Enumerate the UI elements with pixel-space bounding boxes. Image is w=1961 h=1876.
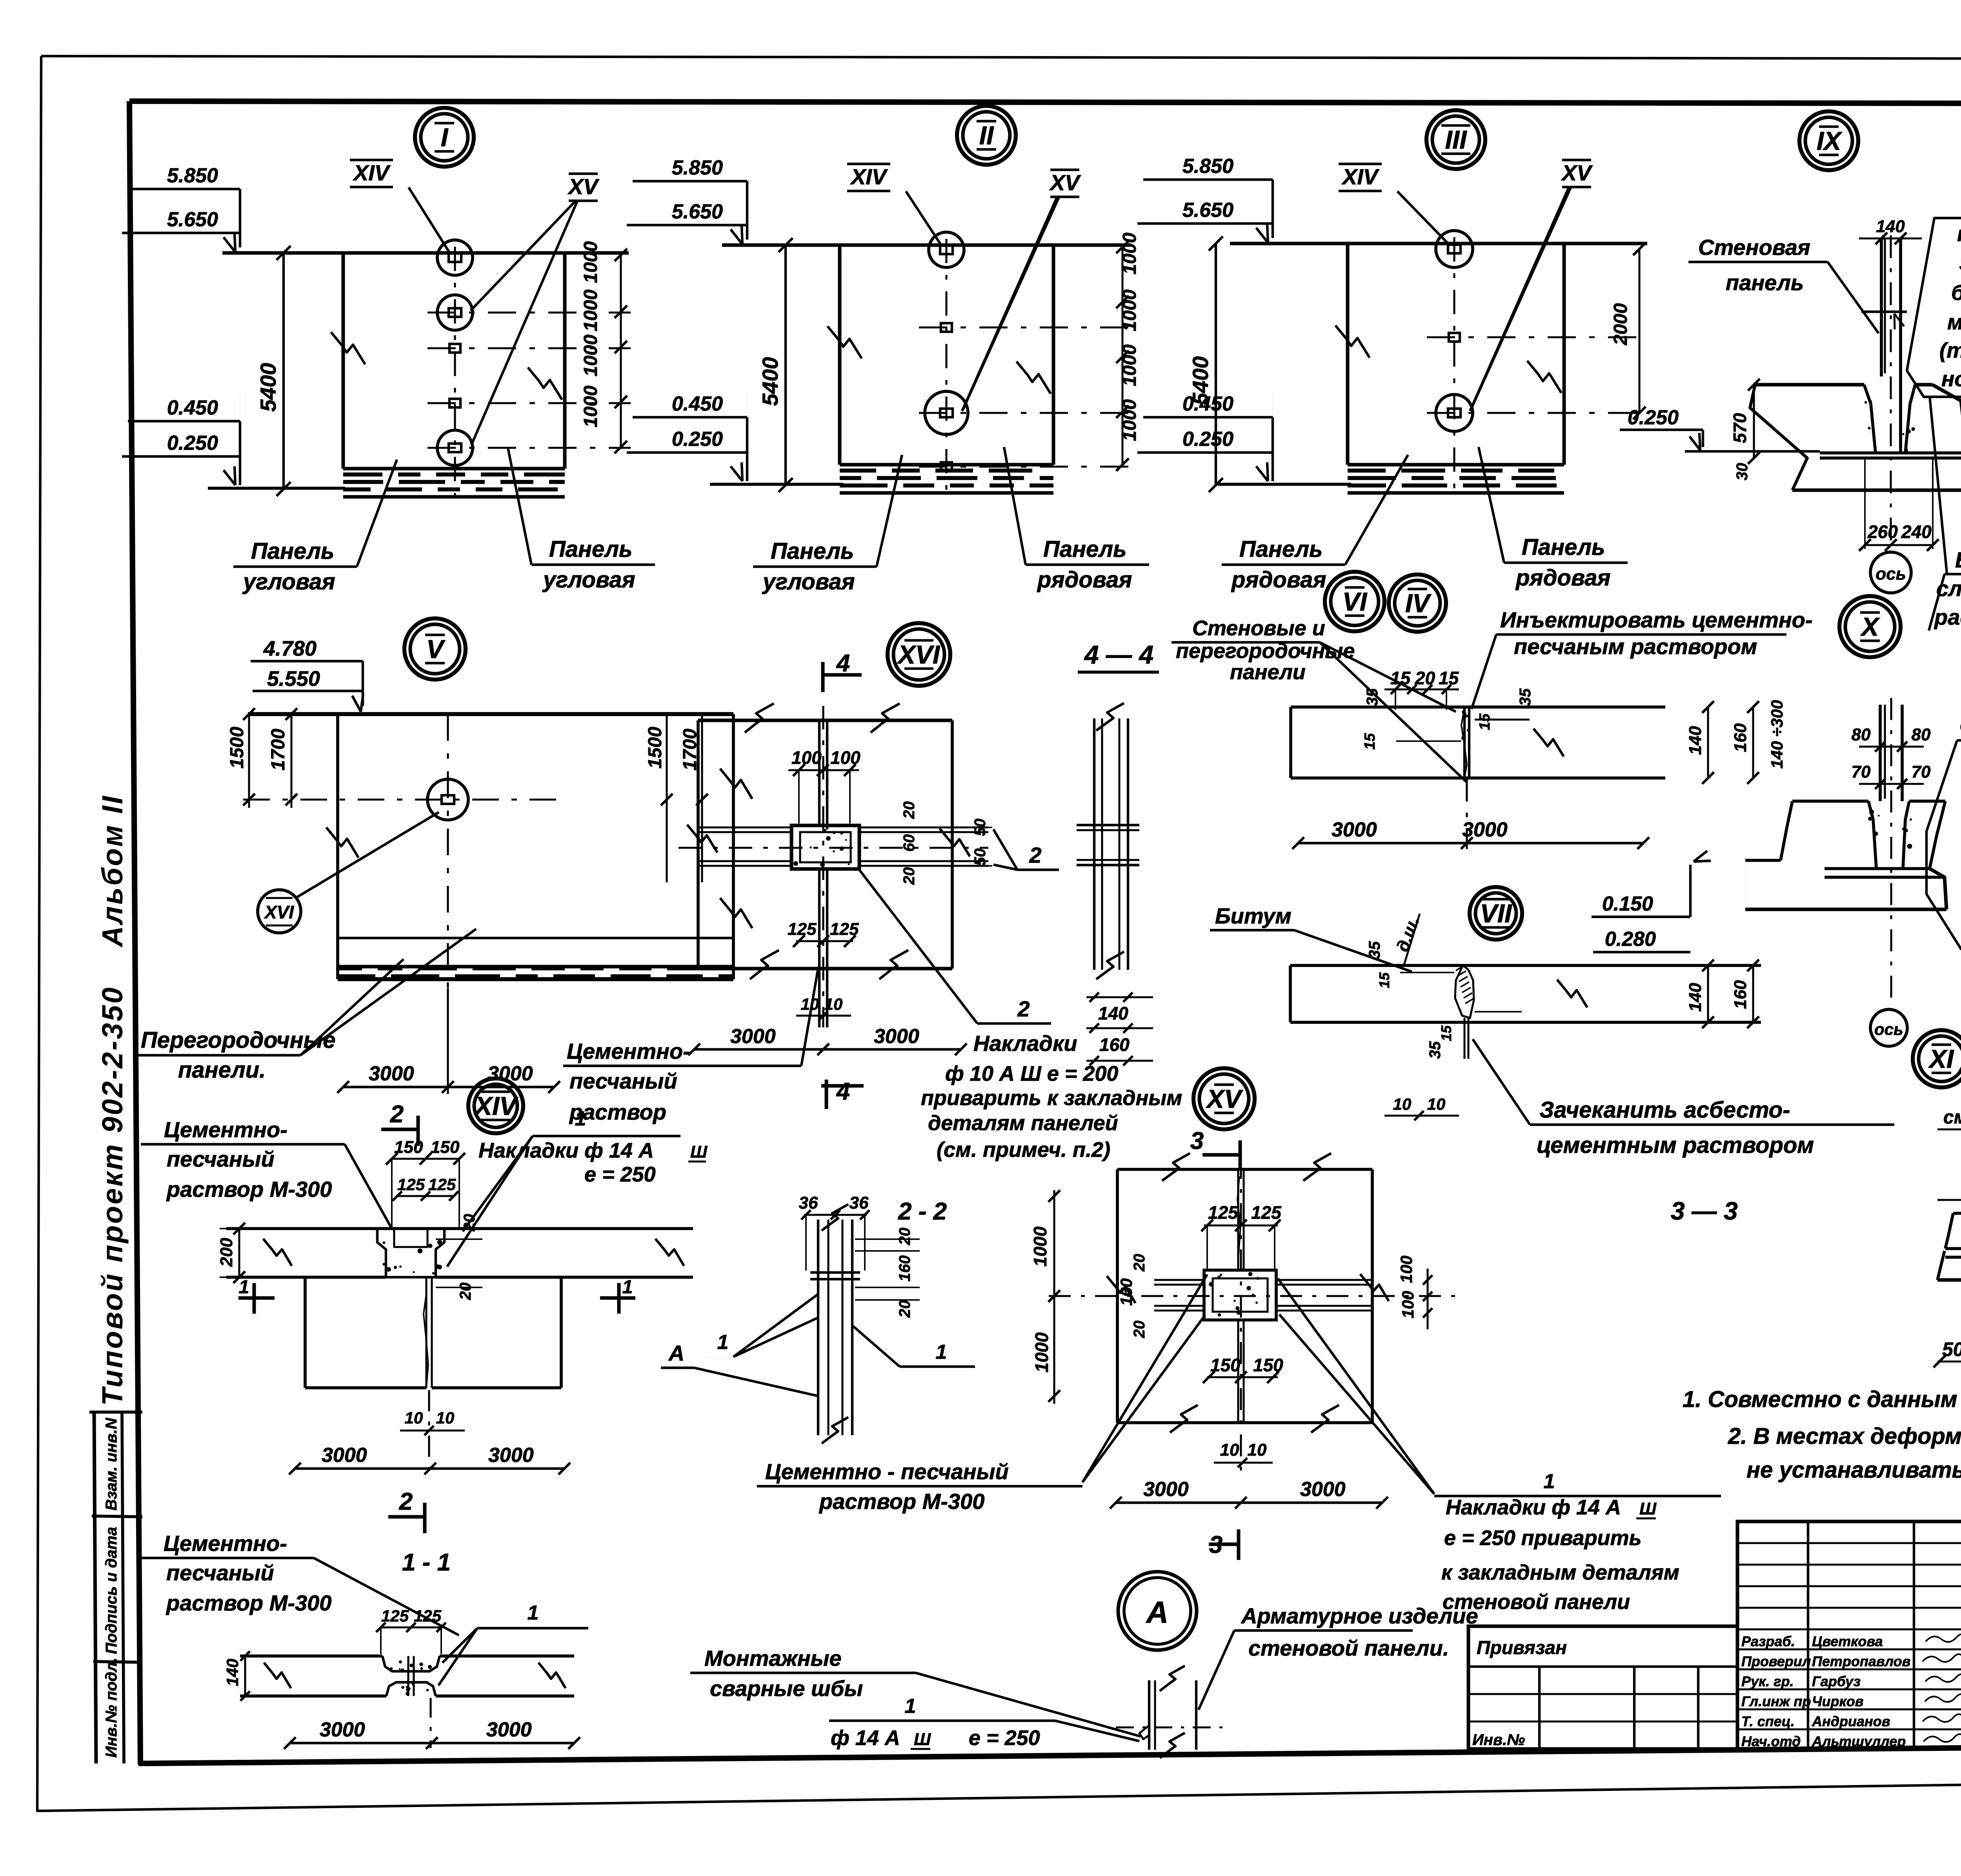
detail VI circle	[1325, 572, 1384, 631]
1-1 dim 125 125	[380, 1626, 442, 1628]
V bottom strips	[338, 937, 733, 939]
svg-text:36: 36	[850, 1193, 869, 1212]
detail II panel left edge	[838, 245, 842, 465]
1-1 dim 140	[244, 1656, 246, 1696]
svg-text:IX: IX	[1817, 126, 1843, 155]
svg-text:Арматурное изделие: Арматурное изделие	[1241, 1603, 1478, 1628]
svg-text:160: 160	[1117, 1278, 1135, 1306]
svg-text:III: III	[1445, 125, 1467, 154]
IX ось circle	[1870, 552, 1911, 593]
svg-text:Ш: Ш	[914, 1730, 931, 1749]
svg-text:0.450: 0.450	[167, 396, 218, 419]
svg-text:125: 125	[1251, 1202, 1282, 1223]
IX groove mortar speckle	[1865, 401, 1867, 404]
XIV joint cup	[377, 1229, 386, 1277]
svg-text:0.250: 0.250	[1182, 428, 1233, 451]
svg-text:ось: ось	[1876, 564, 1906, 584]
VII joint gap below	[1463, 1018, 1465, 1059]
svg-text:20: 20	[461, 1214, 478, 1232]
svg-text:5.650: 5.650	[1182, 199, 1233, 222]
svg-text:Андрианов: Андрианов	[1812, 1713, 1890, 1729]
VI/IV right dims 140 160 140-300	[1707, 707, 1709, 778]
2-2 flange	[810, 1271, 860, 1274]
svg-text:(см. примеч. п.2): (см. примеч. п.2)	[937, 1138, 1110, 1162]
detail III right dim	[1638, 249, 1640, 413]
svg-text:Панель: Панель	[1522, 534, 1605, 560]
svg-text:(тщательно уплотнить: (тщательно уплотнить	[1939, 338, 1961, 362]
svg-text:мелком щебне: мелком щебне	[1947, 310, 1961, 334]
svg-text:5400: 5400	[758, 357, 782, 406]
svg-text:2000: 2000	[1610, 303, 1631, 345]
svg-text:1000: 1000	[580, 334, 601, 376]
detail XV circle	[1193, 1068, 1255, 1129]
svg-text:140: 140	[223, 1659, 242, 1686]
svg-text:1000: 1000	[1119, 289, 1140, 331]
svg-text:Зачеканить асбесто-: Зачеканить асбесто-	[1539, 1097, 1790, 1123]
svg-text:рядовая: рядовая	[1037, 567, 1132, 593]
svg-text:1: 1	[1544, 1470, 1555, 1493]
svg-text:2: 2	[1029, 843, 1041, 867]
svg-text:10: 10	[1393, 1095, 1412, 1113]
svg-text:раствора состава 1:2.: раствора состава 1:2.	[1934, 605, 1961, 629]
detail I joint squares	[449, 344, 460, 353]
svg-text:15: 15	[1438, 1025, 1454, 1041]
svg-text:5.650: 5.650	[167, 208, 218, 231]
svg-text:1700: 1700	[268, 729, 289, 771]
svg-text:100: 100	[830, 747, 860, 768]
svg-text:Взам. инв.N: Взам. инв.N	[103, 1418, 120, 1511]
svg-text:1: 1	[528, 1602, 539, 1624]
svg-text:3000: 3000	[730, 1025, 776, 1048]
section mark 1-1 right upper	[600, 1296, 635, 1300]
VI/IV dim 3000 3000	[1298, 842, 1643, 844]
detail I top line	[222, 251, 629, 255]
detail II joint squares	[941, 323, 952, 332]
svg-text:ножевым вибратором): ножевым вибратором)	[1941, 367, 1961, 391]
svg-text:XIV: XIV	[473, 1091, 518, 1120]
svg-text:0.250: 0.250	[672, 428, 723, 451]
svg-text:140: 140	[1686, 726, 1705, 755]
XIV dim 150 150	[392, 1158, 459, 1160]
svg-text:не устанавливать ( узел X: не устанавливать ( узел XVI ).	[1746, 1457, 1961, 1483]
svg-text:20: 20	[1131, 1254, 1148, 1272]
svg-text:1000: 1000	[580, 241, 601, 283]
4-4 section vertical member	[1093, 718, 1095, 970]
svg-text:160: 160	[1731, 723, 1750, 752]
svg-text:Монтажные: Монтажные	[704, 1646, 842, 1671]
svg-text:бетоном . М-300 на: бетоном . М-300 на	[1951, 280, 1961, 305]
svg-text:200: 200	[217, 1238, 236, 1267]
svg-text:Панель: Панель	[1239, 536, 1323, 562]
svg-text:XV: XV	[1205, 1084, 1243, 1113]
left margin stamp column	[94, 1412, 96, 1763]
svg-text:10: 10	[1220, 1440, 1239, 1460]
svg-text:Т. спец.: Т. спец.	[1741, 1713, 1795, 1729]
svg-text:угловая: угловая	[762, 569, 855, 594]
V left dims 1500 1700	[248, 714, 250, 808]
svg-text:панель: панель	[1726, 270, 1804, 295]
svg-text:10: 10	[405, 1409, 423, 1427]
detail I vertical axis	[454, 247, 456, 500]
XI foundation	[1947, 1213, 1961, 1214]
svg-text:сварные шбы: сварные шбы	[710, 1676, 863, 1701]
detail III top line	[1230, 242, 1647, 245]
svg-text:Панель: Панель	[1043, 536, 1127, 562]
svg-text:XV: XV	[568, 174, 600, 199]
X foundation	[1792, 800, 1868, 803]
V panel top edge	[248, 712, 733, 716]
svg-text:Чирков: Чирков	[1812, 1693, 1863, 1709]
svg-text:Стеновая: Стеновая	[1698, 235, 1810, 260]
svg-text:3: 3	[1190, 1127, 1204, 1154]
V leader XVI to joint	[297, 812, 439, 897]
svg-text:Инъектировать цементно-: Инъектировать цементно-	[1500, 607, 1813, 632]
svg-text:угловая: угловая	[542, 567, 635, 593]
svg-text:VI: VI	[1343, 587, 1368, 616]
svg-text:ф 14 А: ф 14 А	[831, 1726, 900, 1750]
svg-text:3000: 3000	[486, 1718, 532, 1741]
svg-text:20: 20	[896, 1228, 913, 1246]
svg-text:панели: панели	[1230, 660, 1306, 684]
svg-text:125: 125	[428, 1175, 456, 1194]
svg-text:Накладки ф 14 А: Накладки ф 14 А	[478, 1139, 654, 1162]
svg-text:10: 10	[1248, 1440, 1267, 1460]
detail II joint circles	[929, 232, 964, 267]
svg-text:1000: 1000	[1119, 233, 1140, 274]
svg-text:стеновой панели.: стеновой панели.	[1248, 1636, 1449, 1660]
svg-text:140: 140	[1876, 217, 1905, 236]
detail III panel bottom + hatch	[1348, 463, 1564, 467]
svg-text:3000: 3000	[1462, 818, 1508, 841]
svg-text:А: А	[1146, 1595, 1168, 1629]
detail I panel right edge	[563, 253, 567, 469]
svg-text:10: 10	[1427, 1095, 1446, 1113]
svg-text:4: 4	[836, 1078, 850, 1105]
svg-text:угловая: угловая	[242, 569, 335, 594]
svg-text:125: 125	[414, 1607, 442, 1625]
svg-text:35: 35	[1426, 1041, 1444, 1059]
svg-text:125: 125	[830, 920, 859, 939]
svg-text:XVI: XVI	[897, 640, 940, 669]
XV vertical axis	[1240, 1157, 1242, 1474]
IX leader to Выравнивающий note	[1930, 396, 1947, 573]
detail I circle	[415, 108, 474, 167]
svg-text:1: 1	[717, 1331, 729, 1354]
detail III vertical axis	[1453, 237, 1455, 496]
svg-text:3000: 3000	[1143, 1478, 1189, 1501]
svg-text:Рук. гр.: Рук. гр.	[1741, 1673, 1794, 1689]
svg-text:Разраб.: Разраб.	[1741, 1633, 1795, 1649]
XV plan outline	[1117, 1168, 1372, 1171]
svg-text:XIV: XIV	[850, 164, 888, 189]
detail II circle	[957, 106, 1016, 165]
1-1 slab	[240, 1654, 382, 1658]
svg-text:150: 150	[431, 1138, 460, 1157]
IX axis line to osj circle	[1890, 235, 1892, 552]
svg-text:0.450: 0.450	[672, 393, 723, 415]
svg-text:Гл.инж пр: Гл.инж пр	[1741, 1693, 1811, 1709]
svg-text:125: 125	[788, 920, 817, 939]
V ref circle XVI	[258, 890, 301, 933]
svg-text:XVI: XVI	[264, 902, 294, 922]
svg-text:Панель: Панель	[251, 538, 335, 564]
XV dim 125 125	[1204, 1224, 1278, 1226]
detail A circle	[1118, 1572, 1197, 1650]
IX wall panel	[1880, 238, 1883, 376]
svg-text:15: 15	[1376, 972, 1392, 988]
svg-text:XV: XV	[1561, 160, 1593, 185]
svg-text:е = 250: е = 250	[969, 1726, 1040, 1750]
svg-text:А: А	[668, 1341, 684, 1365]
VII right dims 140 160	[1707, 965, 1709, 1022]
svg-text:5.850: 5.850	[167, 164, 218, 187]
svg-text:80: 80	[1852, 725, 1871, 744]
svg-text:140: 140	[1686, 983, 1705, 1012]
detail II dim 5400	[784, 245, 787, 486]
svg-text:е = 250 приварить: е = 250 приварить	[1444, 1526, 1642, 1550]
svg-text:песчаным раствором: песчаным раствором	[1514, 634, 1757, 659]
svg-text:5.850: 5.850	[1182, 155, 1233, 178]
svg-text:Подпись и дата: Подпись и дата	[103, 1527, 120, 1654]
svg-text:100: 100	[1399, 1291, 1417, 1318]
svg-text:70: 70	[1852, 762, 1871, 782]
svg-text:рядовая: рядовая	[1231, 567, 1326, 593]
svg-text:35: 35	[1517, 688, 1534, 706]
svg-text:15: 15	[1390, 668, 1411, 688]
svg-text:15: 15	[1477, 713, 1493, 730]
svg-text:Ш: Ш	[690, 1142, 708, 1162]
svg-text:1: 1	[575, 1107, 586, 1130]
svg-text:Битум: Битум	[1215, 903, 1292, 928]
svg-text:цементным раствором: цементным раствором	[1537, 1133, 1814, 1158]
svg-text:Ш: Ш	[1639, 1499, 1657, 1518]
svg-text:раствор М-300: раствор М-300	[166, 1177, 332, 1202]
X dims 80 80	[1859, 745, 1924, 747]
svg-text:2: 2	[399, 1488, 413, 1515]
svg-text:140: 140	[1098, 1003, 1128, 1023]
svg-text:3000: 3000	[1300, 1478, 1346, 1501]
svg-text:3000: 3000	[1332, 818, 1377, 841]
svg-text:Нач.отд: Нач.отд	[1741, 1733, 1801, 1749]
detail X circle	[1839, 596, 1901, 657]
XVI dim 3000 3000	[694, 1048, 961, 1051]
svg-text:1: 1	[905, 1695, 916, 1718]
detail III ground line	[1218, 483, 1351, 486]
svg-text:1000: 1000	[1119, 344, 1140, 386]
svg-text:панели.: панели.	[178, 1057, 266, 1083]
VII slab	[1290, 964, 1761, 967]
svg-text:20: 20	[900, 867, 918, 885]
svg-text:Цементно-: Цементно-	[567, 1039, 690, 1063]
XIV lower panel	[304, 1277, 307, 1388]
leader Стеновые to joint	[1320, 642, 1456, 712]
XVI joint cup	[791, 825, 859, 869]
detail I joint circles	[437, 240, 473, 275]
detail IV circle	[1389, 574, 1446, 632]
svg-text:20: 20	[896, 1300, 913, 1318]
svg-text:30: 30	[1734, 463, 1751, 481]
svg-text:песчаный: песчаный	[166, 1560, 274, 1585]
svg-text:150: 150	[394, 1138, 423, 1157]
detail II ground line	[710, 483, 843, 486]
detail I right dim	[620, 255, 622, 447]
svg-text:0.450: 0.450	[1182, 393, 1233, 415]
svg-text:1: 1	[936, 1341, 947, 1363]
svg-text:1: 1	[239, 1277, 249, 1298]
svg-text:Накладки ф 14 А: Накладки ф 14 А	[1446, 1496, 1621, 1519]
svg-text:1000: 1000	[1030, 1226, 1050, 1267]
svg-text:160: 160	[896, 1255, 913, 1282]
svg-text:Проверил: Проверил	[1741, 1653, 1811, 1669]
X axis	[1890, 698, 1892, 1008]
svg-text:XIV: XIV	[353, 160, 391, 185]
2-2 dim 36 36	[804, 1214, 867, 1216]
A plate	[1148, 1680, 1150, 1750]
svg-text:Петропавлов: Петропавлов	[1812, 1653, 1910, 1669]
svg-text:5.550: 5.550	[267, 667, 320, 691]
V center joint circle	[427, 779, 468, 820]
IX foundation outline	[1755, 383, 1864, 387]
svg-text:песчаный: песчаный	[167, 1147, 275, 1171]
X ось circle	[1870, 1009, 1907, 1046]
XVI vertical axis	[822, 706, 824, 1027]
svg-text:5400: 5400	[256, 363, 280, 412]
IX wall mid tick	[1861, 311, 1907, 313]
IX dim 570	[1753, 385, 1755, 458]
svg-text:VII: VII	[1480, 899, 1512, 928]
svg-text:Инв.№: Инв.№	[1472, 1731, 1525, 1749]
svg-text:3000: 3000	[322, 1444, 367, 1467]
detail II panel right edge	[1052, 245, 1055, 465]
svg-text:1000: 1000	[1119, 399, 1140, 441]
1-1 joint cups	[382, 1656, 440, 1671]
XIV joint below	[425, 1277, 427, 1388]
A weld mark	[1139, 1725, 1149, 1739]
XIV dim 3000 3000	[295, 1467, 564, 1470]
svg-text:0.150: 0.150	[1602, 893, 1653, 915]
svg-text:I: I	[441, 123, 449, 152]
XV dim 150 150	[1207, 1376, 1278, 1378]
svg-text:1000: 1000	[580, 385, 601, 427]
detail II panel bottom + hatch	[840, 463, 1053, 467]
svg-text:раствор М-300: раствор М-300	[819, 1489, 984, 1514]
detail I dim 5400	[282, 253, 285, 490]
svg-text:5.650: 5.650	[672, 200, 723, 223]
svg-text:XIV: XIV	[1341, 164, 1380, 189]
detail III circle	[1426, 110, 1485, 169]
svg-text:20: 20	[457, 1283, 474, 1301]
XIV slab	[226, 1227, 693, 1230]
1-1 dim 3000 3000	[290, 1742, 574, 1744]
XV dim 3000 3000	[1116, 1502, 1382, 1504]
detail III joint squares	[1449, 333, 1460, 342]
XV cup flange lines	[1276, 1279, 1372, 1281]
detail I panel bottom + hatch	[343, 467, 565, 471]
svg-text:1500: 1500	[227, 727, 247, 769]
svg-text:IV: IV	[1405, 589, 1432, 618]
svg-text:2: 2	[1017, 996, 1030, 1021]
svg-text:XI: XI	[1928, 1044, 1954, 1073]
VI/IV joint gap	[1463, 707, 1466, 778]
V panel right edge	[732, 714, 735, 979]
detail II right dim	[1121, 247, 1123, 465]
detail V circle	[404, 618, 466, 680]
svg-text:2 - 2: 2 - 2	[898, 1198, 947, 1225]
XVI dim 125 125	[796, 940, 853, 942]
XV horizontal axis	[1049, 1295, 1456, 1297]
V horizontal axis	[243, 798, 561, 800]
svg-text:Привязан: Привязан	[1477, 1638, 1567, 1658]
XV vertical joint	[1237, 1169, 1239, 1270]
svg-text:приварить к закладным: приварить к закладным	[921, 1086, 1182, 1110]
svg-text:ф 10 А Ш е = 200: ф 10 А Ш е = 200	[945, 1062, 1118, 1085]
svg-text:150: 150	[1253, 1355, 1283, 1375]
detail XI circle	[1913, 1030, 1961, 1087]
XIV dim 125 125	[396, 1195, 455, 1197]
svg-text:деталям панелей: деталям панелей	[928, 1111, 1118, 1135]
4-4 mid flange	[1077, 824, 1139, 826]
svg-text:160: 160	[1099, 1034, 1130, 1055]
X groove speckle	[1868, 817, 1872, 821]
svg-text:0.250: 0.250	[1628, 406, 1679, 429]
svg-text:125: 125	[397, 1175, 425, 1194]
detail I horizontal joint axes	[427, 311, 631, 313]
A axis line	[1116, 1726, 1230, 1728]
svg-text:0.250: 0.250	[167, 432, 218, 454]
XV leader left to mortar label	[1082, 1318, 1203, 1482]
svg-text:35: 35	[1364, 688, 1381, 706]
svg-text:2: 2	[390, 1101, 404, 1128]
svg-text:570: 570	[1730, 413, 1750, 443]
detail IX circle	[1799, 111, 1858, 170]
svg-text:1000: 1000	[1031, 1332, 1052, 1372]
svg-text:1000: 1000	[580, 289, 601, 331]
XVI dim 100 100	[788, 769, 859, 771]
svg-text:II: II	[979, 121, 994, 150]
svg-text:XV: XV	[1049, 170, 1081, 195]
svg-text:1500: 1500	[645, 727, 666, 769]
svg-text:к закладным деталям: к закладным деталям	[1441, 1561, 1679, 1584]
detail III joint circles	[1436, 231, 1473, 267]
2-2 member	[817, 1220, 819, 1435]
svg-text:см. узлы: см. узлы	[1943, 1107, 1961, 1128]
note callout outline	[1907, 218, 1961, 397]
detail II top line	[722, 244, 1130, 247]
section mark 1-1 left upper	[238, 1296, 275, 1300]
detail I panel left edge	[342, 253, 345, 469]
title block signatures grid	[1737, 1522, 1961, 1749]
svg-text:4.780: 4.780	[263, 637, 317, 660]
svg-text:100: 100	[791, 747, 822, 768]
svg-text:панелей пазы: панелей пазы	[1957, 222, 1961, 246]
detail III dim 5400	[1215, 244, 1217, 486]
svg-text:140 ÷300: 140 ÷300	[1768, 700, 1786, 769]
detail I ground line	[208, 487, 345, 490]
svg-text:125: 125	[381, 1607, 409, 1625]
svg-text:80: 80	[1912, 725, 1931, 744]
svg-text:V: V	[426, 634, 446, 664]
detail XVI circle	[888, 623, 950, 686]
svg-text:4: 4	[836, 650, 850, 677]
svg-text:ось: ось	[1874, 1020, 1903, 1038]
svg-text:3000: 3000	[488, 1444, 534, 1467]
XV leaders right to Накладки label	[1278, 1278, 1434, 1494]
svg-text:3000: 3000	[320, 1718, 365, 1741]
detail II vertical axis	[945, 239, 947, 496]
svg-text:Гарбуз: Гарбуз	[1812, 1673, 1861, 1689]
svg-text:Инв.№ подл.: Инв.№ подл.	[103, 1658, 120, 1758]
VII joint bitumen blob	[1455, 965, 1474, 1018]
